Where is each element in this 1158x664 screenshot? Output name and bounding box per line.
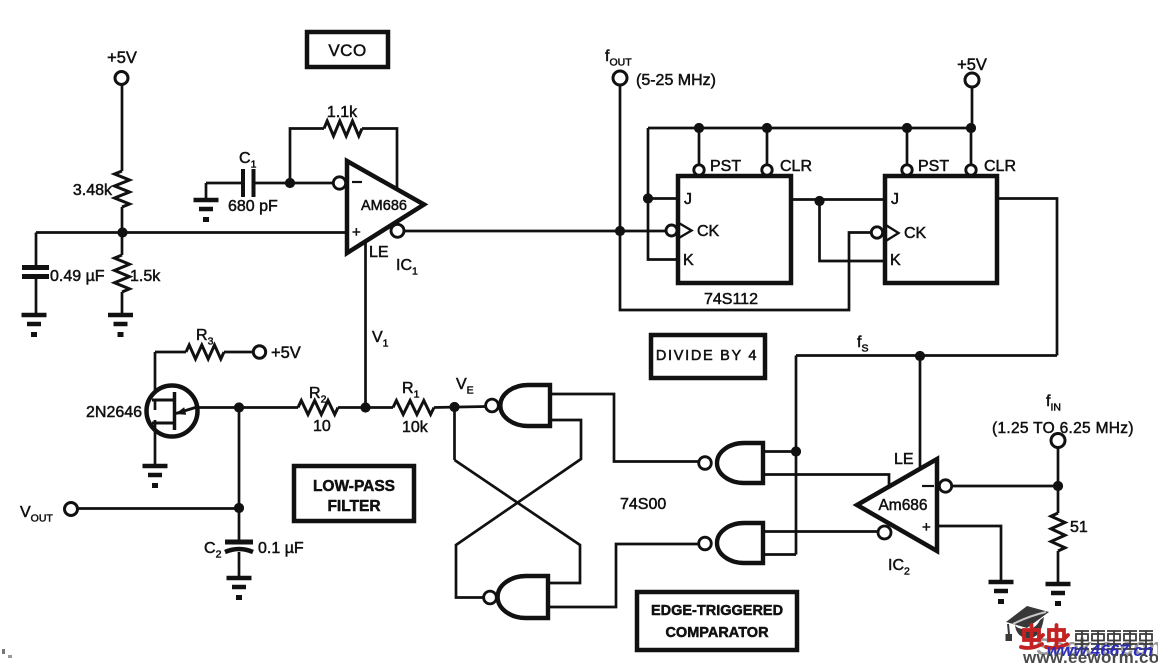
svg-text:10k: 10k: [402, 419, 429, 436]
wire: fS down to latch gates: [795, 356, 798, 555]
wire: G2 bottom input from G4 output: [548, 544, 698, 607]
svg-text:J: J: [891, 191, 899, 208]
wire: fS horizontal: [796, 354, 1057, 357]
wire: G4 top input from IC2 Q-bar bubble: [763, 530, 878, 533]
wire: G2 output up-diagonal to G1 lower input: [456, 420, 581, 598]
wire: fOUT vertical, to FF2 clock: [620, 85, 872, 310]
svg-text:1.1k: 1.1k: [327, 104, 358, 121]
ground (under 51): [1046, 582, 1071, 587]
node: [234, 503, 244, 513]
wire: [1057, 448, 1060, 514]
pin CLR bubble: [762, 165, 772, 175]
wire: [206, 182, 241, 185]
watermark: dark CJK site name: [1075, 631, 1153, 649]
ground (IC2 + input): [989, 580, 1014, 585]
resistor R 3.48k: [115, 171, 130, 207]
svg-text:PST: PST: [918, 158, 949, 175]
wire: R1 to VE node: [434, 407, 486, 408]
svg-text:LOW-PASS: LOW-PASS: [313, 478, 395, 495]
svg-text:10: 10: [313, 418, 331, 435]
pin CK with clock wedge: [885, 225, 899, 242]
pin PST bubble: [694, 165, 704, 175]
node: V1 junction: [360, 402, 370, 412]
svg-text:+: +: [352, 224, 361, 241]
svg-text:CK: CK: [697, 223, 720, 240]
wire: FF1 Q to FF2 K: [820, 201, 886, 261]
svg-text:74S00: 74S00: [620, 496, 666, 513]
svg-text:1.5k: 1.5k: [130, 268, 161, 285]
svg-text:LE: LE: [894, 451, 914, 468]
node: junction of 3.48k / 1.5k / main line: [117, 227, 127, 237]
svg-text:EDGE-TRIGGERED: EDGE-TRIGGERED: [651, 603, 783, 619]
node: [791, 446, 801, 456]
wire: [121, 207, 124, 255]
node: [902, 123, 912, 133]
wire: [154, 352, 157, 400]
svg-text:0.49 µF: 0.49 µF: [50, 268, 105, 285]
svg-text:J: J: [684, 191, 692, 208]
wire: IC1 output line: [404, 230, 667, 233]
node: [234, 402, 244, 412]
wire: FF1 J/K tie-high drop: [648, 128, 678, 260]
wire: G3 bottom input from IC2 top slope: [763, 475, 889, 488]
pin: Q-bar output bubble on lower slope: [878, 526, 891, 539]
ground (under 0.49uF): [22, 313, 47, 318]
node: [643, 193, 653, 203]
flip-flop FF2 74S112: [906, 128, 909, 165]
svg-text:DIVIDE BY 4: DIVIDE BY 4: [656, 348, 758, 364]
VCO label box: [307, 32, 388, 67]
node: [762, 123, 772, 133]
ground (under C2): [227, 576, 252, 581]
svg-text:K: K: [683, 252, 694, 269]
NAND gate G1 (74S00) output to VE: [500, 385, 550, 426]
pin CLR bubble: [966, 165, 976, 175]
wire: feedback loop right side: [362, 129, 397, 191]
NAND gate G3: [717, 443, 763, 483]
wire: [78, 507, 240, 510]
resistor R1 10k: [393, 401, 434, 415]
wire: G3 top input from fS: [763, 450, 796, 453]
svg-text:+5V: +5V: [957, 56, 987, 74]
node: [966, 123, 976, 133]
wire: G1 top input from G3 output: [550, 394, 698, 462]
NAND gate G4: [717, 523, 763, 563]
ground (under 1.5k): [108, 313, 133, 318]
wire: FF1 Q to FF2 J: [791, 198, 885, 201]
transistor Q1 2N2646: [147, 386, 198, 437]
svg-text:www.eeworm.com: www.eeworm.com: [1022, 648, 1158, 664]
resistor 51: [1051, 513, 1065, 551]
svg-text:VCO: VCO: [328, 41, 366, 60]
svg-text:COMPARATOR: COMPARATOR: [665, 625, 769, 641]
wire: V1 / LE line down from IC1: [364, 240, 367, 408]
wire: feedback loop left side: [290, 129, 324, 184]
wire: [1057, 551, 1060, 584]
resistor R2 10: [298, 401, 338, 415]
ground (under 2N2646): [143, 464, 168, 469]
pin CK with clock wedge: [678, 223, 692, 239]
ground (C1 left plate): [205, 183, 208, 200]
wire: main horizontal net to comparator + input: [36, 231, 347, 234]
node fS junction: [915, 351, 925, 361]
svg-text:PST: PST: [710, 158, 741, 175]
op-amp U1 AM686 comparator (VCO): [347, 161, 424, 253]
EDGE-TRIGGERED COMPARATOR label box: [637, 592, 797, 650]
svg-text:51: 51: [1070, 519, 1088, 536]
svg-text:AM686: AM686: [361, 198, 407, 214]
wire: FF2 Q output down to fS line: [997, 199, 1057, 356]
wire: IC2 - input to fIN node: [952, 485, 1058, 488]
svg-text:3.48k: 3.48k: [73, 182, 113, 199]
capacitor C1 680 pF: [241, 169, 245, 197]
DIVIDE BY 4 label box: [651, 335, 765, 378]
stray scan mark: [2, 649, 5, 654]
svg-text:LE: LE: [369, 244, 389, 261]
svg-text:+5V: +5V: [107, 49, 137, 67]
node: C1 / feedback junction: [285, 178, 295, 188]
svg-text:CLR: CLR: [780, 158, 812, 175]
wire: +5V rail over flip-flops: [648, 127, 972, 130]
wire: G4 bottom input from fS: [763, 553, 796, 556]
wire: [35, 277, 38, 315]
resistor R3: [155, 351, 186, 354]
svg-text:680 pF: 680 pF: [228, 198, 278, 215]
pin: inverting input bubble of IC2: [939, 480, 951, 492]
node: [1053, 481, 1063, 491]
wire: [121, 85, 124, 172]
wire: diagonal to gate G2 top input: [455, 460, 581, 583]
svg-text:K: K: [890, 252, 901, 269]
node VE: [449, 402, 459, 412]
NAND gate G2: [498, 576, 548, 618]
svg-text:(5-25 MHz): (5-25 MHz): [636, 72, 716, 89]
terminal +5V (R3): [253, 346, 265, 358]
watermark: graduation cap logo: [1006, 606, 1049, 628]
svg-text:CLR: CLR: [984, 158, 1016, 175]
capacitor C2 0.1 uF: [225, 540, 253, 545]
node: [694, 123, 704, 133]
pin: output bubble of IC1: [391, 224, 404, 237]
svg-text:0.1 µF: 0.1 µF: [258, 540, 304, 557]
resistor 1.5k: [115, 255, 130, 292]
pin PST bubble: [902, 165, 912, 175]
svg-text:Am686: Am686: [878, 497, 927, 514]
svg-text:2N2646: 2N2646: [86, 404, 142, 421]
capacitor 0.49 uF: [35, 233, 38, 267]
wire: LE of IC2: [919, 356, 922, 469]
svg-text:+: +: [922, 519, 931, 536]
wire: emitter to R2: [195, 406, 298, 409]
wire: IC2 + input to ground: [937, 526, 1001, 582]
svg-text:+5V: +5V: [271, 344, 301, 362]
flip-flop FF1 74S112: [698, 128, 701, 165]
wire: [238, 408, 241, 541]
svg-text:CK: CK: [904, 225, 927, 242]
wire: [254, 182, 335, 185]
node: [814, 196, 824, 206]
svg-text:FILTER: FILTER: [327, 498, 380, 515]
watermark: red characters: [1021, 625, 1068, 648]
wire: [238, 552, 241, 578]
wire: [121, 292, 124, 315]
resistor 1.1k feedback: [324, 121, 362, 136]
LOW-PASS FILTER label box: [294, 466, 414, 521]
svg-text:74S112: 74S112: [704, 291, 758, 308]
wire: VE down to cross-couple: [453, 407, 456, 460]
node: fOUT tap on VCO output: [615, 226, 625, 236]
op-amp U2 Am686 comparator (left-facing): [857, 459, 937, 551]
pin: inverting input bubble: [333, 177, 345, 189]
